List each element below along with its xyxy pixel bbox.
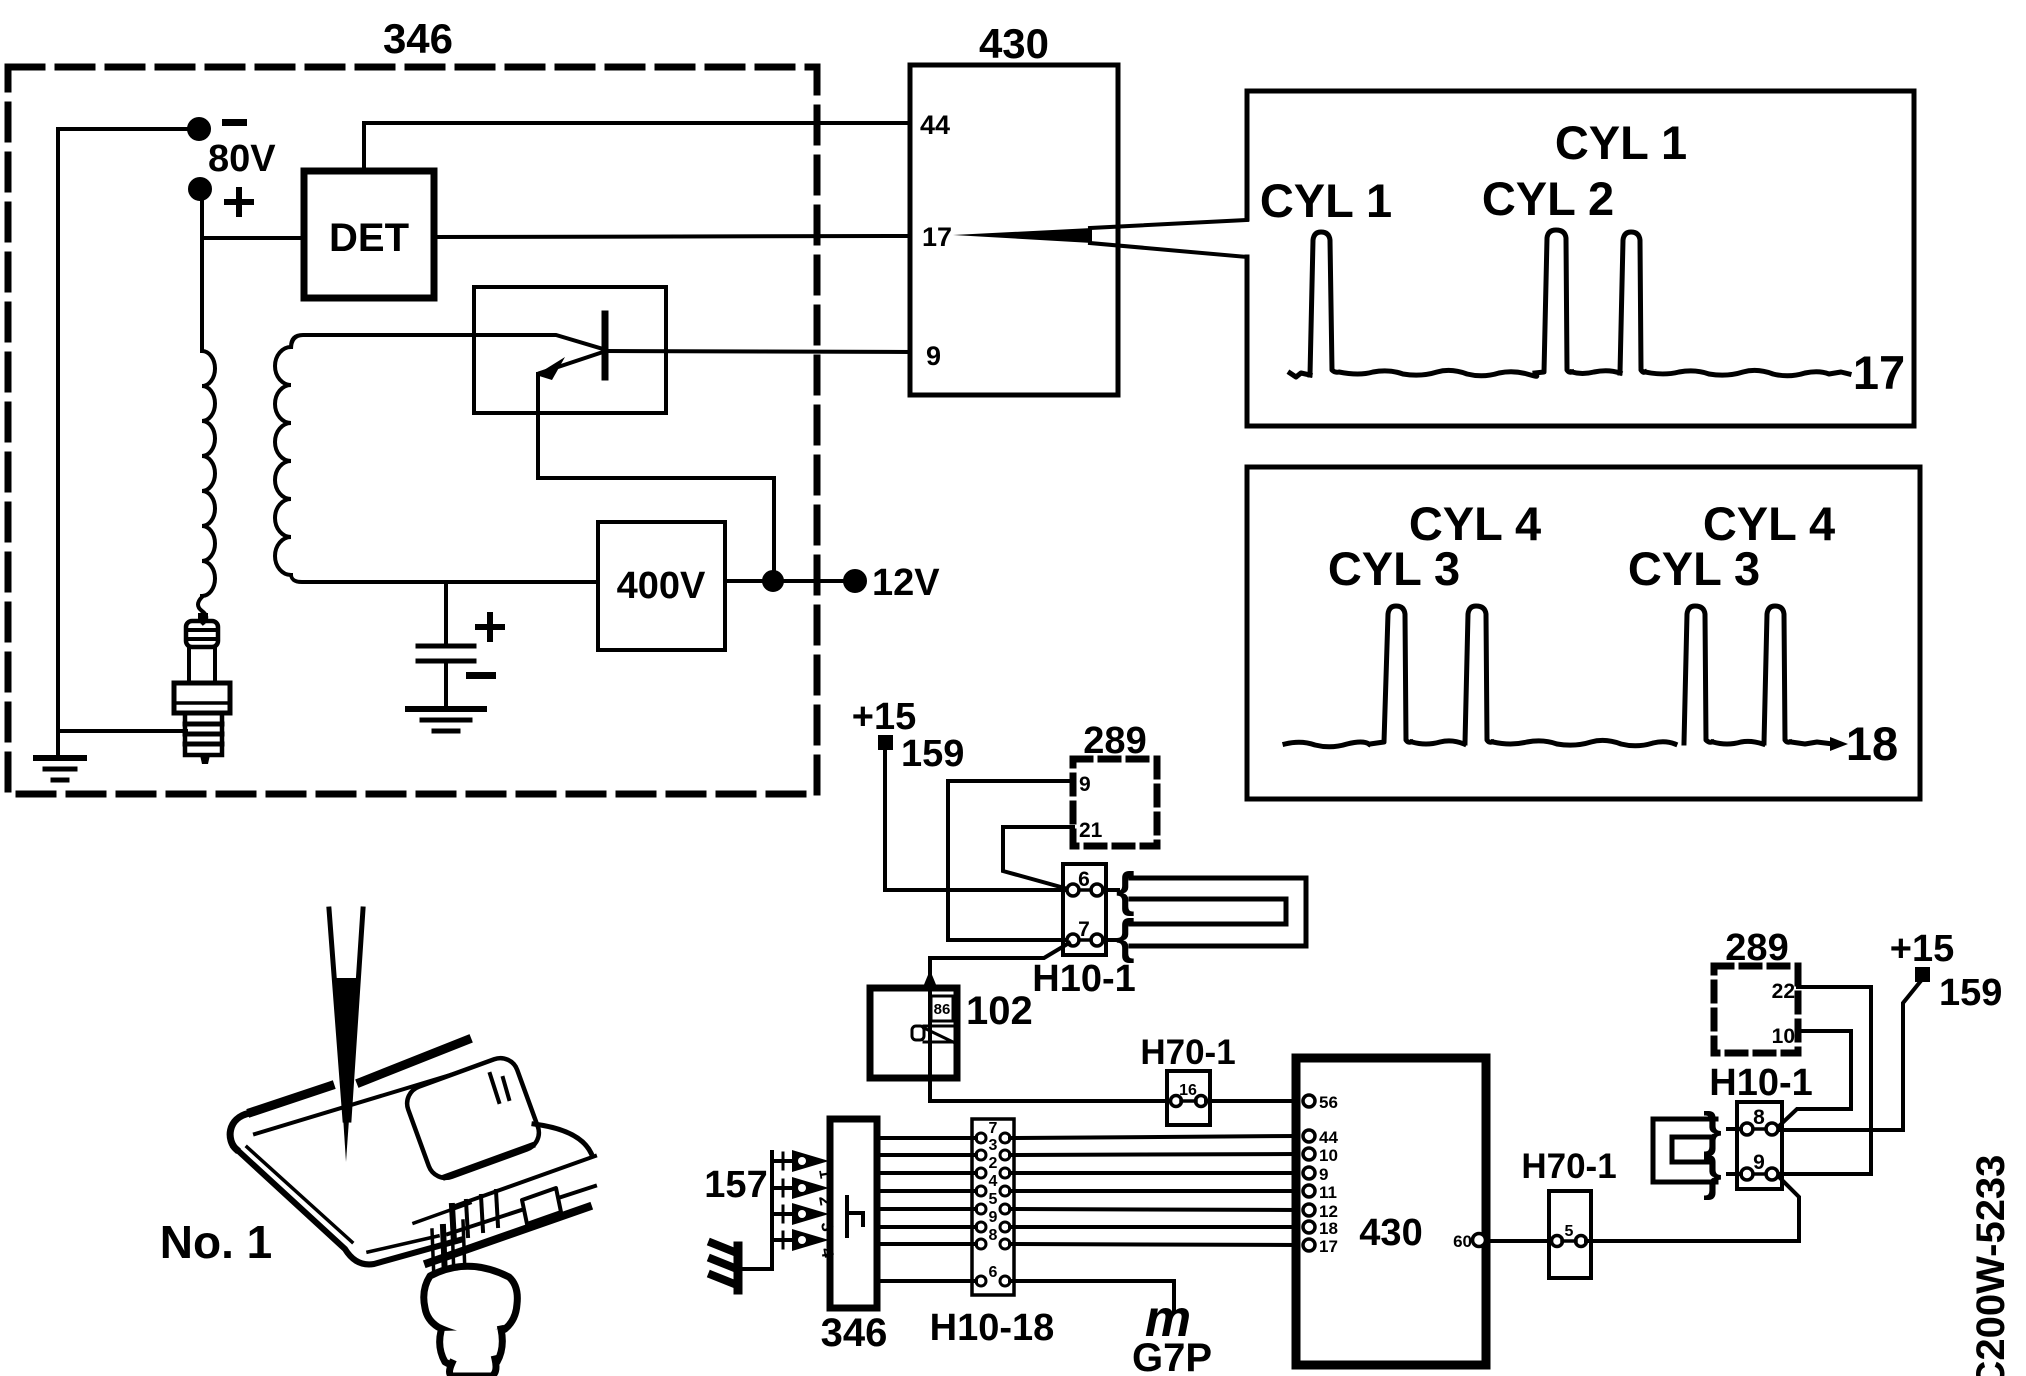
430 pin 60: [1473, 1234, 1486, 1247]
plate back edge highlight: [252, 1040, 467, 1112]
plate bottom-left edge: [234, 1147, 460, 1264]
svg-text:17: 17: [1853, 346, 1905, 399]
wire collector to pin 9: [605, 351, 910, 352]
svg-text:102: 102: [966, 989, 1033, 1033]
relay contact: [912, 1026, 957, 1042]
heated element (inner loop): [1131, 899, 1286, 924]
wire H70-1 #5 to H10-1 pin 9: [1586, 1177, 1799, 1241]
157 pin 4: [772, 1229, 838, 1260]
svg-text:No. 1: No. 1: [160, 1216, 272, 1268]
wire 346-8: [877, 1242, 976, 1246]
wire ground to spark plug shell: [58, 729, 186, 733]
ignition coil illustration: [230, 909, 595, 1376]
connector box 289 (left, dashed): [1073, 759, 1157, 846]
svg-text:H70-1: H70-1: [1521, 1147, 1616, 1186]
coil boot cap: [450, 1359, 497, 1376]
connector H10-1 (right): [1737, 1102, 1782, 1189]
svg-text:11: 11: [1319, 1183, 1337, 1202]
wire to 430 pin 17: [1010, 1244, 1296, 1245]
minus sign: [222, 119, 247, 126]
wire 346-5: [877, 1207, 976, 1211]
svg-text:9: 9: [1079, 773, 1091, 796]
wire 346-4: [877, 1189, 976, 1193]
wire plus terminal down to coil: [200, 197, 204, 351]
wire H70-1 to 430 pin 56: [1206, 1099, 1296, 1103]
svg-text:CYL 3: CYL 3: [1328, 542, 1460, 595]
junction node: [764, 572, 782, 590]
coil secondary winding (right): [275, 347, 291, 575]
svg-text:9: 9: [926, 341, 941, 371]
trace 18 end arrow: [1830, 737, 1848, 751]
svg-text:289: 289: [1083, 720, 1146, 762]
wire to 430 pin 44: [1010, 1136, 1296, 1138]
transistor emitter with arrow: [536, 352, 774, 572]
heated element right (inner loop): [1672, 1137, 1712, 1162]
plate rim inner lines: [247, 1147, 438, 1252]
trigger step symbol: [847, 1197, 863, 1236]
spark plug symbol: [174, 613, 230, 764]
wire 289 pin22 to H10-1 pin9: [1778, 987, 1871, 1174]
terminal dot minus (80V): [189, 119, 209, 139]
connector H70-1 #5: [1549, 1191, 1591, 1278]
wire to 430 pin 11: [1010, 1189, 1296, 1193]
svg-text:86: 86: [934, 1001, 951, 1018]
pin 7 contacts: [1067, 934, 1079, 946]
waveform trace 18: [1285, 606, 1833, 747]
svg-text:56: 56: [1319, 1093, 1338, 1112]
svg-text:17: 17: [922, 222, 952, 252]
svg-text:}: }: [1703, 1148, 1722, 1201]
wire +15 to H10-1 pin8: [1778, 982, 1920, 1130]
157 pin 1: [772, 1150, 835, 1180]
coil boot band 2: [440, 1329, 503, 1370]
svg-text:9: 9: [1319, 1165, 1328, 1184]
pin 8 contacts: [1741, 1123, 1753, 1135]
terminal +15 (right): [1915, 967, 1930, 982]
svg-text:9: 9: [1753, 1151, 1765, 1174]
svg-text:CYL 2: CYL 2: [1482, 172, 1614, 225]
wire 346-2: [877, 1171, 976, 1175]
H10-18 pins: [976, 1120, 1010, 1286]
waveform trace 17: [1290, 230, 1849, 377]
detector box DET: [304, 171, 434, 298]
svg-text:159: 159: [901, 733, 964, 775]
svg-text:44: 44: [1319, 1128, 1338, 1147]
ground (left): [36, 758, 84, 780]
capacitor C: [418, 582, 474, 708]
svg-text:4: 4: [989, 1173, 998, 1190]
terminal dot plus (80V): [190, 179, 210, 199]
svg-text:C200W-5233: C200W-5233: [1969, 1155, 2013, 1376]
wire minus-terminal to left vertical: [58, 127, 199, 131]
svg-text:60: 60: [1453, 1232, 1472, 1251]
arrow into pin 7 wire: [923, 970, 937, 987]
svg-text:DET: DET: [329, 216, 409, 260]
oscilloscope frame 1: [1247, 91, 1914, 426]
pin 6 stub: [1103, 888, 1118, 892]
svg-text:+15: +15: [852, 696, 916, 738]
svg-text:21: 21: [1079, 819, 1103, 842]
control unit box 430 (bottom): [1296, 1058, 1486, 1365]
heated element right (outer loop): [1653, 1119, 1716, 1182]
connector H70-1 #16: [1167, 1071, 1210, 1125]
pin 6 contacts: [1067, 884, 1079, 896]
svg-text:8: 8: [989, 1227, 998, 1244]
connector H10-18: [972, 1119, 1014, 1295]
terminal dot 12V: [845, 571, 865, 591]
plate top surface edge: [255, 1066, 480, 1134]
wire to 430 pin 10: [1010, 1154, 1296, 1155]
svg-text:12V: 12V: [872, 562, 940, 604]
svg-text:6: 6: [989, 1264, 998, 1281]
connector H10-1 (left): [1063, 864, 1106, 955]
wire 346-9: [877, 1225, 976, 1229]
pin 9 contacts: [1741, 1168, 1753, 1180]
svg-text:5: 5: [989, 1191, 998, 1208]
svg-text:{: {: [1116, 911, 1135, 964]
wire DET output to pin 17: [434, 236, 910, 237]
heated element (outer loop): [1131, 878, 1306, 946]
relay coil terminal 86: [931, 996, 953, 1021]
pin 9 stub: [1728, 1172, 1741, 1176]
svg-text:80V: 80V: [208, 138, 276, 180]
157 pin 2: [772, 1177, 835, 1207]
voltage converter box 400V: [598, 522, 725, 650]
svg-text:2: 2: [989, 1155, 998, 1172]
svg-text:H10-1: H10-1: [1032, 958, 1136, 1000]
svg-text:289: 289: [1725, 927, 1788, 969]
svg-text:CYL 3: CYL 3: [1628, 542, 1760, 595]
wire to DET input: [202, 236, 304, 240]
wire coil bottom to 400V: [291, 575, 598, 582]
svg-text:+15: +15: [1890, 928, 1954, 970]
oscilloscope frame 2: [1247, 467, 1920, 799]
chassis ground (157): [712, 1243, 738, 1290]
connector box 289 (right, dashed): [1714, 966, 1798, 1053]
wire 346-3: [877, 1153, 976, 1157]
capacitor minus sign: [466, 672, 496, 679]
svg-text:G7P: G7P: [1132, 1336, 1212, 1376]
svg-text:CYL 1: CYL 1: [1260, 174, 1392, 227]
transistor bar: [602, 314, 609, 377]
wire H10-18 pin6 to G7P: [1010, 1281, 1174, 1312]
svg-text:346: 346: [383, 15, 453, 62]
ignition unit connector 346: [830, 1119, 877, 1308]
wire DET top to pin 44: [364, 123, 910, 171]
wire 400V to 12V terminal: [725, 579, 855, 583]
wire 346-6: [877, 1279, 976, 1283]
coil boot band 1: [424, 1266, 518, 1336]
wire H10-1 pin7 to relay 102: [930, 943, 1171, 1101]
plate left corner hook: [230, 1113, 250, 1149]
wire +15 to H10-1 pin6: [885, 750, 1067, 890]
svg-text:346: 346: [821, 1311, 888, 1355]
terminal +15 (left): [878, 735, 893, 750]
svg-text:18: 18: [1846, 717, 1898, 770]
svg-text:159: 159: [1939, 972, 2002, 1014]
wire to 430 pin 18: [1010, 1225, 1296, 1229]
svg-text:16: 16: [1179, 1082, 1197, 1099]
wire 430 pin60 to H70-1 #5: [1486, 1239, 1552, 1243]
svg-text:H10-18: H10-18: [930, 1307, 1055, 1349]
wire 289 pin9 to H10-1 pin7: [948, 781, 1073, 940]
svg-text:H10-1: H10-1: [1709, 1062, 1813, 1104]
wire coil top to transistor base: [291, 335, 603, 349]
svg-text:8: 8: [1753, 1106, 1765, 1129]
surface contour curve: [534, 1124, 591, 1153]
ground (capacitor): [408, 709, 484, 731]
coil window: [402, 1053, 544, 1183]
svg-text:H70-1: H70-1: [1140, 1033, 1235, 1072]
svg-text:CYL 1: CYL 1: [1555, 116, 1687, 169]
slat bracket right: [428, 1156, 595, 1263]
svg-text:430: 430: [1359, 1212, 1422, 1254]
coil tower: [414, 1203, 470, 1280]
157 pin 3: [772, 1203, 837, 1233]
svg-text:10: 10: [1772, 1025, 1795, 1048]
svg-text:9: 9: [989, 1209, 998, 1226]
wire to 430 pin 9: [1010, 1171, 1296, 1175]
test probe needle: [329, 909, 345, 1120]
coil primary winding (left): [202, 351, 215, 596]
control unit box 430 (top): [910, 65, 1118, 395]
transistor box: [474, 287, 666, 413]
svg-text:10: 10: [1319, 1146, 1338, 1165]
pin 7 stub: [1103, 938, 1118, 942]
430 pins left: [1303, 1093, 1338, 1256]
svg-text:157: 157: [704, 1164, 767, 1206]
svg-text:7: 7: [989, 1120, 998, 1137]
wire 157 to chassis ground: [742, 1267, 772, 1271]
capacitor plus sign: [478, 615, 502, 639]
wire 289 pin21 to H10-1 pin6: [1003, 827, 1073, 889]
knock sensor unit box 346 (dashed): [8, 67, 817, 794]
relay box 102: [870, 988, 957, 1078]
wire 289 pin10 to H10-1 pin8: [1778, 1031, 1851, 1127]
svg-text:17: 17: [1319, 1237, 1338, 1256]
wire left vertical down: [56, 129, 60, 757]
callout wedge pin17 to scope: [953, 220, 1247, 257]
wire coil to spark plug: [198, 597, 206, 623]
svg-text:18: 18: [1319, 1219, 1338, 1238]
plus sign: [227, 190, 251, 214]
svg-text:{: {: [1116, 864, 1135, 917]
svg-text:5: 5: [1565, 1223, 1574, 1240]
svg-text:22: 22: [1772, 980, 1795, 1003]
pin 8 stub: [1728, 1127, 1741, 1131]
wire to 430 pin 12: [1010, 1209, 1296, 1210]
svg-text:3: 3: [989, 1137, 998, 1154]
surface slash marks: [490, 1074, 509, 1102]
157 bus line: [770, 1152, 774, 1269]
svg-text:44: 44: [920, 110, 950, 140]
wire 346-7: [877, 1136, 976, 1140]
svg-text:400V: 400V: [617, 565, 706, 607]
svg-text:430: 430: [979, 20, 1049, 67]
